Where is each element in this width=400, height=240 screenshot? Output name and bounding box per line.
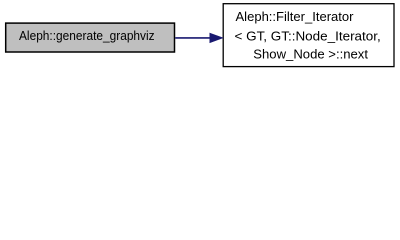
- svg-text:< GT, GT::Node_Iterator,: < GT, GT::Node_Iterator,: [235, 29, 381, 44]
- svg-text:Aleph::generate_graphviz: Aleph::generate_graphviz: [19, 28, 155, 43]
- node: Aleph::generate_graphviz (current node, grey): [6, 23, 175, 52]
- svg-text:Show_Node >::next: Show_Node >::next: [253, 47, 368, 62]
- wire: [175, 37, 210, 39]
- node: Aleph::Filter_Iterator< GT, GT::Node_Iterator, Show_Node >::next: [223, 4, 394, 67]
- arrowhead: [210, 33, 223, 43]
- svg-text:Aleph::Filter_Iterator: Aleph::Filter_Iterator: [236, 9, 355, 24]
- edge: generate_graphviz -> Filter_Iterator::next: [175, 33, 223, 43]
